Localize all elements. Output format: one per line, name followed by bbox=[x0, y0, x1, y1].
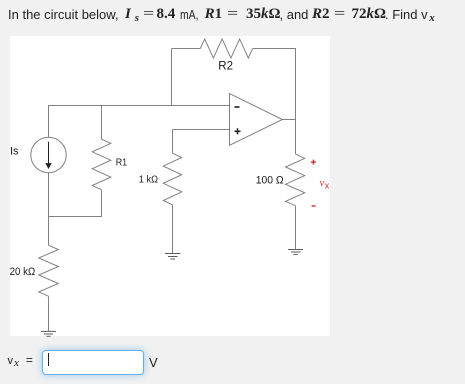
op-amp minus sign bbox=[235, 106, 240, 108]
current source Is circle bbox=[31, 137, 66, 172]
ground for 1k resistor bbox=[165, 254, 181, 260]
wire 1k resistor top lead bbox=[172, 130, 174, 154]
wire top horizontal (inverting input node) bbox=[48, 105, 230, 107]
wire R2 left lead bbox=[172, 48, 201, 50]
wire current source bottom lead bbox=[48, 173, 50, 217]
wire R1 top lead bbox=[101, 106, 103, 140]
problem statement bbox=[0, 0, 465, 26]
wire op-amp output bbox=[282, 119, 295, 121]
ground for 20k resistor bbox=[41, 331, 56, 336]
wire 100 ohm bottom lead bbox=[295, 206, 297, 250]
op-amp plus sign bbox=[235, 128, 241, 134]
unit V bbox=[149, 355, 158, 370]
circuit canvas bbox=[10, 36, 330, 336]
wire R1 bottom lead bbox=[101, 190, 103, 217]
wire 1k resistor bottom lead bbox=[172, 205, 174, 254]
resistor 1k zigzag bbox=[163, 153, 181, 205]
wire non-inverting input bbox=[173, 129, 230, 131]
ground for 100 ohm resistor bbox=[288, 250, 303, 255]
wire 20k top lead bbox=[48, 217, 50, 246]
wire bottom horizontal bbox=[48, 216, 102, 218]
wire R2 right lead bbox=[253, 48, 296, 50]
vx plus sign (red) bbox=[311, 160, 316, 165]
resistor R2 zigzag bbox=[200, 39, 252, 58]
wire current source top lead bbox=[48, 106, 50, 138]
resistor 20k zigzag bbox=[39, 245, 59, 296]
label vx = bbox=[8, 353, 33, 370]
wire 20k bottom lead bbox=[48, 296, 50, 331]
input box bbox=[42, 350, 144, 375]
op-amp U1 triangle bbox=[230, 94, 283, 146]
resistor R1 zigzag bbox=[92, 139, 111, 190]
current source arrow bbox=[46, 142, 51, 168]
wire output right vertical bbox=[295, 49, 297, 155]
vx minus sign (red) bbox=[312, 205, 316, 207]
wire feedback left vertical bbox=[171, 49, 173, 106]
resistor 100 ohm zigzag bbox=[286, 154, 305, 206]
